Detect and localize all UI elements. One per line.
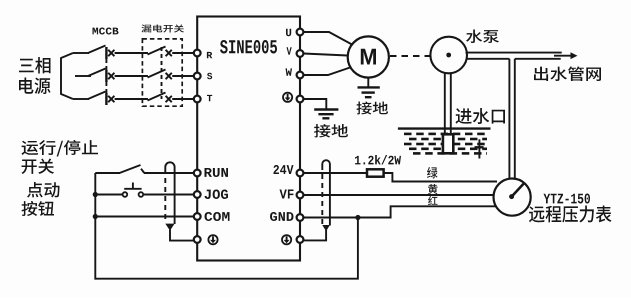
terminal 24V xyxy=(297,170,304,177)
terminal V xyxy=(297,50,304,57)
wire MCCB pole R to RCD xyxy=(115,52,148,54)
wire RCD pole S to terminal S xyxy=(172,75,194,77)
terminal U xyxy=(297,29,304,36)
shielded cable right: top arc and sides xyxy=(322,160,330,225)
wire MCCB pole S to RCD xyxy=(115,75,148,77)
switch RCD linkage (dashed) xyxy=(161,47,163,99)
pin label VF xyxy=(280,190,294,199)
wire W to motor xyxy=(304,68,351,76)
pin label T xyxy=(207,95,212,101)
switch 漏电开关 (RCD) label xyxy=(142,25,185,33)
wire dashed shaft motor to pump xyxy=(390,55,430,57)
pin label R xyxy=(207,52,212,58)
push button 点动 (jog) xyxy=(123,183,144,197)
water texture dashes xyxy=(404,134,487,154)
gauge hub dot xyxy=(509,194,514,199)
ground symbol right of inverter xyxy=(314,110,338,119)
switch RCD dashed enclosure xyxy=(142,39,182,106)
breaker MCCB pole R: blade, contact bar, x-contact xyxy=(88,46,106,54)
terminal W xyxy=(297,72,304,79)
motor M circle xyxy=(348,36,389,77)
label 运行/停止 xyxy=(22,140,99,157)
inverter U1 label SINE005 xyxy=(220,40,277,54)
pin label JOG xyxy=(205,190,229,200)
terminal T xyxy=(194,96,201,103)
terminal PE-control-left xyxy=(194,236,201,243)
label 红 (red) xyxy=(428,196,438,205)
terminal GND xyxy=(297,214,304,221)
wire left bus vertical xyxy=(94,173,96,280)
pin label RUN xyxy=(205,168,229,177)
wire resistor to green wire step xyxy=(384,173,497,182)
label 接地 below motor xyxy=(357,102,389,115)
pipe suction left wall xyxy=(444,73,446,135)
pin label GND xyxy=(270,212,294,221)
junction dot on bus at JOG row xyxy=(93,192,98,197)
label 远程压力表 xyxy=(529,206,612,223)
label 1.2k/2W xyxy=(355,155,401,165)
label 开关 xyxy=(22,159,55,175)
wire bus to jog button xyxy=(95,194,122,196)
wire RCD pole T to terminal T xyxy=(172,98,194,100)
wire phase R from bracket to MCCB xyxy=(73,52,89,54)
motor M letter xyxy=(361,49,376,65)
switch RCD pole T: blade and x-contact xyxy=(148,93,166,101)
gauge YTZ-150 circle xyxy=(493,179,530,216)
pump circle xyxy=(430,37,467,74)
wire motor to ground xyxy=(367,78,369,87)
ground symbol inside box at right PE terminal xyxy=(282,235,291,244)
pin label W xyxy=(286,68,293,75)
wire VF to gauge (yellow) xyxy=(304,194,495,196)
label 接地 below inverter ground xyxy=(314,124,348,138)
pump hub dot xyxy=(446,53,451,58)
pipe riser right wall xyxy=(514,59,516,179)
wire bus to COM terminal xyxy=(95,216,194,218)
wire GND to gauge (red) with step xyxy=(304,206,497,217)
label 绿 (green) xyxy=(427,167,438,179)
node 三相电源 (three-phase source) label xyxy=(19,57,51,74)
ground symbol inside box at left PE terminal xyxy=(208,235,217,244)
label 水泵 xyxy=(466,30,499,44)
switch 运行/停止 (run/stop) xyxy=(95,172,120,174)
wire bottom common loop xyxy=(95,219,358,279)
wire phase T from bracket to MCCB xyxy=(73,98,89,100)
label 出水管网 xyxy=(534,67,601,82)
shielded cable right: converging bottom xyxy=(322,225,330,231)
terminal COM xyxy=(194,213,201,220)
water surface line xyxy=(398,127,491,129)
label 按钮 xyxy=(22,201,55,216)
pin label V xyxy=(287,47,292,54)
terminal S xyxy=(194,73,201,80)
pin label COM xyxy=(205,212,230,221)
wire button to JOG terminal xyxy=(143,194,194,196)
breaker MCCB pole S: blade, contact bar, x-contact xyxy=(88,69,106,77)
shielded cable left: top arc and sides xyxy=(165,162,174,224)
pin label S xyxy=(207,73,212,79)
ground symbol below motor xyxy=(358,87,380,97)
pin label 24V xyxy=(274,165,294,174)
wire MCCB pole T to RCD xyxy=(115,98,148,100)
breaker MCCB label xyxy=(93,28,119,35)
wire 24V to resistor xyxy=(304,172,368,174)
breaker MCCB mechanical linkage (dashed) xyxy=(105,59,107,70)
terminal JOG xyxy=(194,191,201,198)
terminal R xyxy=(194,50,201,57)
switch RCD pole S: blade and x-contact xyxy=(148,70,166,78)
label 点动 xyxy=(27,182,60,198)
pipe outlet bottom wall xyxy=(466,58,509,60)
label YTZ-150 xyxy=(544,194,591,204)
resistor R1 1.2k/2W xyxy=(367,169,384,176)
label 黄 (yellow) xyxy=(428,184,438,194)
flow arrow 出水 xyxy=(554,55,571,57)
wire source bracket xyxy=(61,53,73,99)
tank right tick xyxy=(478,139,480,158)
wire phase S from bracket to MCCB xyxy=(75,75,91,77)
wire shield drain to right PE terminal xyxy=(304,230,327,240)
wire U to motor xyxy=(304,32,353,45)
wire switch to RUN terminal xyxy=(144,172,194,174)
label 进水口 xyxy=(456,108,506,124)
wire RCD pole R to terminal R xyxy=(172,52,194,54)
junction dot on bus at COM row xyxy=(93,214,98,219)
strainer (foot valve) on suction pipe xyxy=(443,134,453,153)
pin label U xyxy=(286,29,291,36)
terminal PE-output xyxy=(297,96,304,103)
inverter U1 SINE005 enclosure xyxy=(197,17,300,261)
gauge needle xyxy=(512,183,525,197)
ground symbol inside box at output PE terminal xyxy=(283,93,292,102)
junction dot GND wire / loop xyxy=(355,215,360,220)
shielded cable left: converging bottom xyxy=(165,224,174,231)
pipe riser to gauge: left wall xyxy=(508,59,510,179)
terminal RUN xyxy=(194,170,201,177)
terminal VF xyxy=(297,192,304,199)
switch RCD pole R: blade and x-contact xyxy=(148,47,166,55)
wire shield drain to left PE terminal xyxy=(170,230,194,241)
pipe suction right wall xyxy=(450,73,452,135)
terminal PE-control-right xyxy=(297,236,304,243)
wire V to motor xyxy=(304,54,348,56)
pipe outlet top wall xyxy=(466,52,562,54)
wire inverter PE terminal to ground xyxy=(304,99,327,109)
breaker MCCB pole T: blade, contact bar, x-contact xyxy=(88,92,106,100)
